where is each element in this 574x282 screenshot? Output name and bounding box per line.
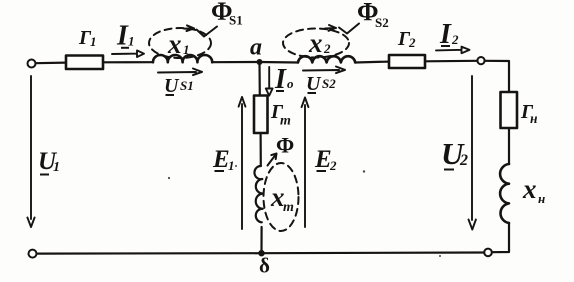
label x1 — [167, 29, 190, 59]
label rH — [520, 101, 538, 126]
label xH — [522, 174, 545, 206]
scan speckles — [168, 165, 441, 257]
emf arrow E2 — [302, 98, 309, 228]
flux ellipse Phi of xm (dashed) — [264, 163, 299, 231]
label E1 — [212, 146, 235, 173]
svg-text:S2: S2 — [322, 76, 336, 91]
svg-text:2: 2 — [451, 32, 459, 47]
flux arrow to Phi label — [268, 154, 277, 166]
inductor x2 (leakage coil) — [298, 56, 355, 62]
svg-text:x: x — [308, 28, 323, 58]
underline of E1 — [215, 170, 225, 172]
current arrow I0 — [266, 67, 273, 96]
svg-text:δ: δ — [259, 254, 270, 278]
wire node a to x2 coil — [260, 61, 299, 64]
flux ellipse PhiS2 (dashed) — [283, 29, 349, 58]
underline of US2 — [308, 92, 317, 94]
resistor rH (load) — [501, 92, 518, 128]
current arrow I1 — [112, 50, 144, 57]
current arrow I2 — [436, 47, 470, 54]
underline of E2 — [317, 170, 327, 172]
wire x2 to R2 — [355, 60, 389, 63]
inductor xH (load coil) — [500, 164, 509, 223]
svg-text:2: 2 — [459, 152, 468, 169]
label U1 — [38, 148, 60, 175]
label US2 — [306, 73, 336, 95]
label PhiS2 — [357, 0, 389, 30]
voltage arrow US2 — [303, 67, 345, 74]
label U2 — [441, 136, 468, 171]
underline of I1 — [121, 47, 129, 49]
wire R2 to terminal top-right — [425, 60, 478, 63]
flux arrow PhiS1 — [184, 25, 194, 31]
svg-text:2: 2 — [408, 35, 416, 50]
label E2 — [314, 146, 337, 173]
wire rH to xH — [508, 128, 510, 164]
wire bottom rail — [37, 253, 485, 254]
emf arrow E1 — [239, 97, 246, 229]
svg-text:x: x — [167, 29, 182, 59]
svg-text:1: 1 — [228, 158, 235, 173]
underline of U1 — [40, 174, 49, 176]
resistor r1 — [66, 56, 103, 70]
terminal primary top-left — [28, 60, 36, 68]
label r2 — [397, 28, 416, 50]
label I1 — [116, 21, 135, 52]
svg-text:S1: S1 — [229, 13, 243, 28]
leader to PhiS1 label — [197, 27, 218, 37]
resistor r2 — [389, 55, 425, 68]
svg-text:S2: S2 — [375, 15, 389, 30]
svg-text:S1: S1 — [180, 78, 194, 93]
terminal secondary bottom-right — [484, 249, 492, 257]
svg-text:2: 2 — [323, 41, 331, 56]
svg-text:U: U — [306, 73, 322, 95]
voltage arrow US1 — [158, 69, 202, 76]
wire xm to node b — [260, 227, 262, 253]
svg-text:a: a — [250, 35, 262, 61]
wire terminal to right branch corner — [485, 61, 509, 92]
label US1 — [164, 75, 194, 97]
underline of US1 — [166, 94, 175, 96]
wire rm to xm — [260, 133, 262, 166]
label rm — [270, 101, 291, 129]
inductor xm (magnetising coil, looped) — [254, 166, 263, 222]
svg-text:m: m — [283, 200, 294, 215]
label PhiS1 — [211, 0, 243, 28]
svg-text:Φ: Φ — [276, 133, 294, 158]
svg-text:1: 1 — [128, 34, 135, 49]
svg-text:1: 1 — [90, 34, 97, 49]
inductor x1 (leakage coil) — [153, 55, 212, 62]
wire node a down to rm — [258, 62, 260, 96]
svg-text:2: 2 — [329, 158, 337, 173]
svg-text:o: o — [287, 76, 294, 91]
svg-text:1: 1 — [183, 42, 190, 57]
label x2 — [308, 28, 331, 58]
voltage arrow U2 — [469, 76, 476, 230]
label r1 — [78, 27, 97, 49]
underline of I2 — [441, 45, 450, 47]
leader to PhiS2 label — [339, 24, 359, 34]
label I2 — [439, 19, 459, 50]
flux arrow PhiS2 — [325, 25, 336, 31]
svg-text:н: н — [530, 111, 538, 126]
underline of I0 — [276, 90, 284, 92]
svg-text:m: m — [280, 114, 291, 129]
voltage arrow U1 — [27, 76, 34, 227]
wire x1 to node a — [212, 61, 259, 63]
wire xH to bottom rail — [492, 223, 509, 252]
label I0 — [274, 64, 294, 95]
node b junction dot — [258, 250, 264, 256]
wire top-left to R1 — [36, 61, 67, 64]
svg-text:н: н — [538, 191, 545, 206]
terminal secondary top-right — [477, 57, 484, 64]
terminal primary bottom-left — [29, 250, 37, 258]
svg-text:U: U — [164, 75, 180, 97]
node a junction dot — [257, 59, 263, 65]
flux ellipse PhiS1 (dashed) — [149, 28, 211, 58]
label xm — [270, 182, 294, 215]
wire R1 to x1 coil — [103, 61, 153, 63]
resistor rm (magnetising branch) — [254, 96, 268, 134]
svg-text:1: 1 — [53, 160, 60, 175]
underline of U2 — [444, 169, 454, 171]
svg-text:x: x — [522, 174, 537, 204]
